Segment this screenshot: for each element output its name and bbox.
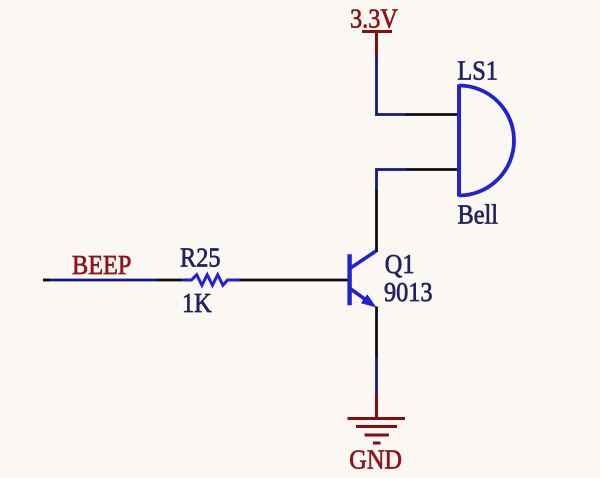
wire from LS1 pin2 left and down — [377, 170, 408, 192]
resistor R25 right pin / base wire — [239, 279, 348, 282]
pin 2 of LS1 (bottom) — [406, 168, 457, 171]
svg-text:Bell: Bell — [458, 199, 498, 229]
ground bar 1 — [348, 417, 406, 420]
emitter pin black — [375, 307, 378, 358]
wire emitter to ground — [375, 358, 378, 395]
transistor Q1 emitter diagonal — [350, 289, 365, 300]
wire end tip — [43, 279, 50, 282]
svg-text:GND: GND — [349, 444, 402, 474]
svg-text:LS1: LS1 — [457, 55, 497, 85]
pin 1 of LS1 (top) — [406, 113, 457, 116]
buzzer LS1 flat edge — [457, 85, 461, 197]
transistor Q1 collector diagonal — [350, 251, 376, 268]
ground bar 3 — [365, 434, 390, 437]
svg-text:3.3V: 3.3V — [350, 3, 398, 33]
wire from 3.3V down and right — [377, 56, 408, 115]
transistor Q1 emitter arrow — [361, 294, 377, 307]
resistor R25 left pin — [157, 279, 183, 282]
wire BEEP horizontal — [43, 279, 158, 282]
svg-text:9013: 9013 — [384, 277, 433, 307]
resistor R25 body — [183, 275, 240, 286]
ground bar 4 — [373, 442, 381, 445]
buzzer LS1 dome — [459, 86, 514, 196]
ground bar 2 — [356, 425, 397, 428]
svg-text:Q1: Q1 — [385, 249, 415, 279]
svg-text:R25: R25 — [180, 242, 220, 272]
svg-text:1K: 1K — [182, 288, 212, 318]
wire collector black segment — [375, 190, 378, 252]
power symbol 3.3V bar — [362, 30, 392, 33]
transistor Q1 base bar — [347, 254, 351, 305]
ground symbol stem — [375, 393, 378, 419]
power symbol stem — [375, 32, 378, 57]
svg-text:BEEP: BEEP — [72, 250, 131, 280]
